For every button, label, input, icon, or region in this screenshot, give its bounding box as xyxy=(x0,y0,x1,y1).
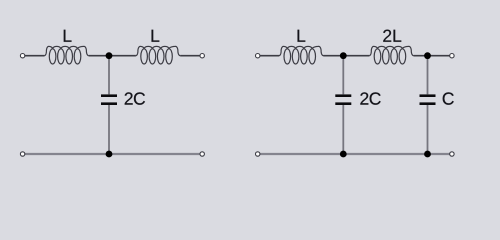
wire from top rail down to C1 xyxy=(108,56,110,95)
node A junction dot, circuit 1 top xyxy=(106,52,113,59)
wire from C2 down to bottom rail xyxy=(342,105,344,154)
wire from C3 down to bottom rail xyxy=(427,105,429,154)
node junction dot below C, circuit 2 bottom xyxy=(424,151,431,158)
capacitor C3 plates xyxy=(420,94,436,105)
terminal port bottom-right, circuit 1 xyxy=(200,152,204,156)
label L for L3 xyxy=(298,30,306,42)
inductor L4 xyxy=(369,46,414,64)
label L for L1 xyxy=(64,30,72,42)
terminal port top-left, circuit 2 xyxy=(256,54,260,58)
terminal port top-right, circuit 2 xyxy=(450,54,454,58)
label L for L2 xyxy=(152,30,160,42)
wire bottom rail, circuit 2 xyxy=(260,153,450,155)
label 2C for C1 xyxy=(125,92,145,104)
wire top rail right segment, circuit 2 xyxy=(414,55,450,57)
terminal port bottom-left, circuit 2 xyxy=(256,152,260,156)
wire bottom rail, circuit 1 xyxy=(25,153,200,155)
node C junction dot, circuit 2 top xyxy=(424,52,431,59)
terminal port top-right, circuit 1 xyxy=(200,54,204,58)
label C for C3 xyxy=(443,92,454,104)
capacitor C1 plates xyxy=(101,94,117,105)
label 2C for C2 xyxy=(360,92,380,104)
wire top rail left segment, circuit 2 xyxy=(260,55,279,57)
node junction dot below B, circuit 2 bottom xyxy=(340,151,347,158)
wire from C1 down to bottom rail xyxy=(108,105,110,154)
wire from top rail down to C2 xyxy=(342,56,344,95)
wire top rail right segment, circuit 1 xyxy=(180,55,200,57)
inductor L1 xyxy=(44,46,89,64)
wire between L1 and L2 through node A xyxy=(89,55,136,57)
terminal port top-left, circuit 1 xyxy=(20,54,24,58)
label 2L for L4 xyxy=(383,30,401,42)
wire from top rail down to C3 xyxy=(427,56,429,95)
wire top rail left segment, circuit 1 xyxy=(25,55,45,57)
inductor L2 xyxy=(136,46,181,64)
node junction dot, circuit 1 bottom xyxy=(106,151,113,158)
terminal port bottom-right, circuit 2 xyxy=(450,152,454,156)
terminal port bottom-left, circuit 1 xyxy=(20,152,24,156)
capacitor C2 plates xyxy=(335,94,351,105)
node B junction dot, circuit 2 top xyxy=(340,52,347,59)
wire between L3 and L4 through node B xyxy=(323,55,369,57)
inductor L3 xyxy=(279,46,324,64)
